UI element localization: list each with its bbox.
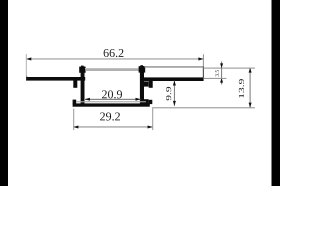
profile: tray inner diffuser line <box>76 101 146 102</box>
dim 13.9 line <box>250 68 251 108</box>
profile: tray left upstand <box>73 100 77 105</box>
dim 3.5 top arrow (pointing down) <box>220 63 223 68</box>
profile: right wall top spike <box>140 65 143 68</box>
profile: right wall head <box>139 66 146 72</box>
dim 13.9 text (rotated) <box>239 79 244 98</box>
dim 29.2 left arrow <box>73 126 78 129</box>
profile: channel lip line upper <box>85 68 140 69</box>
profile: left wall head <box>79 67 85 73</box>
dim 20.9 right arrow <box>136 98 141 101</box>
dim 66.2 left arrow <box>26 57 31 60</box>
dim 66.2 right witness line <box>203 54 204 66</box>
profile: right wing right edge line <box>203 66 204 78</box>
profile: tray bottom bar <box>73 103 150 106</box>
dim 29.2 left witness line <box>73 109 74 131</box>
dim 9.9 top arrow <box>173 81 176 86</box>
profile: tray right upstand <box>149 100 153 104</box>
dim 13.9 top witness line <box>203 68 255 69</box>
profile: tab under right wing <box>149 81 153 88</box>
dim 66.2 left witness line <box>26 54 27 77</box>
dim 3.5 text (rotated, tiny) <box>215 70 219 76</box>
dim 66.2 right arrow <box>198 57 203 60</box>
profile: right wall <box>140 66 144 104</box>
right black border strip <box>272 0 281 186</box>
dim 3.5 lower reference line <box>203 78 226 79</box>
profile: channel lip line lower <box>85 69 140 70</box>
dim 9.9 text (rotated) <box>166 87 171 101</box>
profile: left wall head spike <box>81 66 84 69</box>
dim 29.2 text <box>100 112 120 120</box>
profile: right wing bottom bar <box>144 77 204 81</box>
left black border strip <box>0 0 8 186</box>
profile: right wall upper nub <box>144 81 149 86</box>
dim 13.9 top arrow <box>249 68 252 73</box>
profile: right wall lower nub <box>144 99 149 105</box>
profile: right wing top edge line <box>144 66 204 67</box>
dim 3.5 vertical line <box>221 62 222 85</box>
dim 3.5 bottom arrow (pointing up) <box>220 78 223 83</box>
dim 9.9 bottom arrow <box>173 101 176 106</box>
profile: tab under left wing <box>73 81 77 88</box>
dim 9.9 line <box>174 81 175 106</box>
dim 20.9 text <box>102 90 122 98</box>
dim 13.9 bottom arrow <box>249 103 252 108</box>
dim 13.9 bottom witness line <box>152 107 255 108</box>
dim 29.2 right arrow <box>148 126 153 129</box>
dim 20.9 left arrow <box>85 98 90 101</box>
dim 20.9 line <box>85 99 141 100</box>
profile: left wing flange bar <box>26 77 85 81</box>
dim 29.2 right witness line <box>152 108 153 130</box>
profile: left wing end tick <box>26 76 27 81</box>
dim 66.2 line <box>26 58 203 59</box>
dim 66.2 text <box>104 49 124 57</box>
profile: left wall <box>81 66 85 104</box>
dim 29.2 line <box>73 126 153 127</box>
